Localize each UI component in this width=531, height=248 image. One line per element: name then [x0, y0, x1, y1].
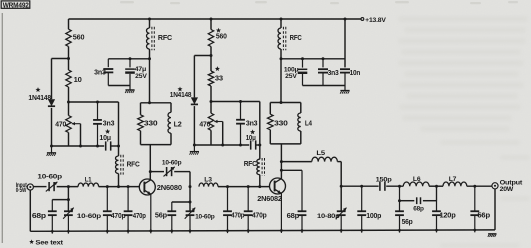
- resistor 33 R5: [208, 71, 213, 86]
- label 10-60p C12: [195, 213, 215, 220]
- svg-text:330: 330: [144, 119, 158, 128]
- wire RFC2 to tank2: [280, 49, 282, 103]
- svg-text:L3: L3: [204, 176, 212, 183]
- node dot RFC4/base: [258, 185, 261, 188]
- label 2N6082: [257, 194, 282, 203]
- core RFC1: [152, 27, 154, 50]
- inductor L7: [443, 182, 467, 186]
- inductor L1: [78, 183, 99, 187]
- node dot rail x=341.2: [340, 229, 343, 232]
- node dot rail/560-2: [210, 18, 213, 21]
- wire RV2 wiper: [222, 122, 224, 146]
- node dot 560-2/diode junction: [210, 54, 213, 57]
- node dot 470p C13 top: [226, 185, 229, 188]
- node dot rail/RFC2: [280, 18, 283, 21]
- label 1N4148 D1: [28, 95, 51, 102]
- wire C16 to RFC4: [255, 144, 259, 146]
- svg-text:150p: 150p: [376, 176, 392, 183]
- wire input to C5: [33, 186, 46, 188]
- node dot rail/10n: [344, 18, 347, 21]
- label 100u C17: [284, 66, 299, 80]
- node dot 68p bridge left: [398, 199, 401, 202]
- svg-text:RFC: RFC: [158, 35, 172, 42]
- resistor 10 R2: [66, 70, 71, 87]
- svg-text:10n: 10n: [350, 70, 361, 77]
- node dot rail x=190: [189, 229, 192, 232]
- capacitor 150p C23 series: [380, 182, 385, 191]
- wire C2 to RFC3: [110, 145, 118, 147]
- node dot rail x=302: [301, 229, 304, 232]
- svg-text:0·5W: 0·5W: [16, 187, 27, 194]
- resistor 330 R3: [138, 115, 144, 131]
- label 470p C14: [252, 213, 267, 220]
- label L6: [413, 176, 421, 183]
- terminal output: [492, 183, 498, 189]
- wire output line A: [341, 185, 378, 187]
- svg-text:330: 330: [274, 119, 288, 128]
- label 100p C22: [366, 213, 381, 220]
- wire RFC1 to tank1: [149, 49, 151, 103]
- ground decoupling2: [340, 86, 350, 94]
- label L1: [85, 177, 92, 184]
- svg-text:+13.8V: +13.8V: [365, 17, 386, 24]
- preset RV2 arrow: [214, 120, 222, 123]
- label +13.8V: [365, 17, 386, 24]
- label 3n3 C1: [103, 118, 115, 127]
- svg-text:RFC: RFC: [244, 161, 257, 168]
- node dot C15 top: [239, 100, 242, 103]
- wire tank2 right top: [300, 103, 302, 114]
- label 10n C19: [350, 70, 361, 77]
- node dot Q1 emitter rail: [149, 230, 152, 233]
- wire interstage column: [189, 187, 191, 212]
- wire decoupling1 bottom: [108, 85, 130, 87]
- node dot 56p C27 top: [473, 185, 476, 188]
- label 470 RV1: [55, 120, 66, 129]
- wire Q2 emitter: [280, 193, 282, 233]
- node dot RFC3/bias-gnd: [117, 145, 120, 148]
- node dot 560/diode junction: [67, 57, 70, 60]
- node dot C15 bottom: [239, 144, 242, 147]
- label L5: [316, 150, 325, 157]
- svg-text:10: 10: [74, 75, 82, 84]
- node dot rail x=399.5: [398, 229, 401, 232]
- wire L7 to output: [467, 185, 492, 187]
- label 10-60p C7: [77, 213, 101, 220]
- label 68p C25: [413, 205, 424, 212]
- svg-text:L5: L5: [316, 150, 325, 157]
- wire D2 cathode: [193, 106, 195, 145]
- svg-text:33: 33: [215, 74, 223, 82]
- node dot 470p C8 top: [106, 185, 109, 188]
- inductor RFC4: [257, 159, 260, 175]
- svg-text:25V: 25V: [135, 73, 147, 80]
- node dot bias1: [67, 101, 70, 104]
- node dot RFC3/base: [117, 185, 120, 188]
- node dot rail x=436.5: [435, 229, 438, 232]
- wire decoupling2 bottom: [303, 85, 346, 87]
- preset resistor 470 RV2: [208, 113, 213, 130]
- wire diode D2 anode: [193, 56, 195, 98]
- svg-text:100p: 100p: [366, 213, 381, 220]
- resistor 560 R1: [66, 29, 71, 46]
- wire tank1 bottom edge: [141, 144, 172, 146]
- wire decoupling1 top: [108, 58, 149, 60]
- capacitor 120p C26: [432, 186, 441, 232]
- diode D1 1N4148: [48, 99, 55, 106]
- svg-text:See text: See text: [35, 240, 64, 247]
- svg-text:470p: 470p: [111, 213, 126, 220]
- node dot C18 top: [322, 57, 325, 60]
- wire stage1 bias gnd: [52, 145, 105, 147]
- star 10u C2: [105, 129, 110, 134]
- wire tank1 right top: [170, 103, 172, 113]
- svg-text:470p: 470p: [231, 213, 244, 220]
- wire RFC1 top: [149, 19, 151, 28]
- label 10u C2: [99, 133, 111, 142]
- wire 68p C6 jog: [52, 200, 68, 212]
- label 470p C9: [133, 213, 146, 220]
- label 3n3 C3: [94, 69, 106, 76]
- label 68p C20: [287, 211, 300, 220]
- label Input: [16, 182, 27, 189]
- wire bias1 down to RFC3: [118, 102, 120, 156]
- label RFC4: [244, 161, 257, 168]
- node dot 56p jog: [189, 201, 192, 204]
- capacitor 470p C8: [103, 187, 112, 234]
- wire tank1 left bottom: [140, 131, 142, 145]
- node dot RV2 wiper/gnd wire: [221, 144, 224, 147]
- transistor Q2 2N6082: [270, 178, 286, 194]
- label 3n3 C15: [246, 118, 258, 127]
- node dot RFC2/decoupling: [280, 57, 283, 60]
- inductor L5: [312, 157, 338, 161]
- label 47u C4: [135, 66, 148, 80]
- label 56p C11: [155, 211, 168, 220]
- inductor RFC2: [278, 28, 281, 49]
- svg-text:2N6080: 2N6080: [157, 183, 182, 192]
- wire L3 to Q2 base: [218, 186, 269, 188]
- wire tank2 right bottom: [300, 131, 302, 144]
- svg-text:1N4148: 1N4148: [170, 92, 192, 99]
- node dot Q2 collector/L5: [280, 160, 283, 163]
- wire output to ground rail: [494, 189, 496, 230]
- node dot D2/gnd wire: [193, 144, 196, 147]
- node dot C4 top: [129, 57, 132, 60]
- label 10-60p C5: [37, 173, 62, 180]
- node dot input shunt node: [67, 185, 70, 188]
- label L4: [305, 119, 312, 128]
- inductor L2: [168, 112, 171, 133]
- label 33 R5: [215, 74, 223, 82]
- wire coupling to column: [174, 171, 190, 173]
- node dot rail x=361.7: [360, 229, 363, 232]
- capacitor 10-60p C7 trimmer: [63, 208, 74, 234]
- capacitor 10-60p C5 trimmer: [46, 182, 58, 192]
- svg-text:3n3: 3n3: [94, 69, 106, 76]
- wire RV2 bottom: [210, 130, 212, 145]
- wire 56p column: [399, 186, 401, 211]
- inductor RFC1: [147, 28, 150, 49]
- label 10-60p C10: [162, 159, 182, 166]
- svg-text:3n3: 3n3: [103, 118, 115, 127]
- wire bias1 node: [69, 101, 119, 103]
- wire stage2 bias gnd: [194, 144, 249, 146]
- node dot rail x=68.4: [67, 230, 70, 233]
- label 470 RV2: [199, 119, 210, 128]
- wire interstage column top: [189, 172, 191, 187]
- capacitor 10u C16 series: [251, 140, 256, 149]
- wire 560-1 to 10: [68, 47, 70, 71]
- capacitor 3n3 C15: [236, 102, 245, 146]
- wire input terminal to rail: [29, 190, 31, 231]
- svg-text:WRM492: WRM492: [3, 1, 29, 10]
- wire 10-80p column: [340, 186, 342, 211]
- wire top +13.8V rail: [69, 18, 361, 20]
- svg-text:560: 560: [73, 33, 85, 42]
- core RFC3: [121, 155, 123, 175]
- wire tank2 to Q2 collector: [280, 144, 282, 179]
- core RFC4: [262, 158, 264, 176]
- node dot L5/10-80p node: [340, 185, 343, 188]
- capacitor 10u C2 series: [106, 141, 111, 150]
- svg-text:470p: 470p: [252, 213, 267, 220]
- preset RV1 arrow: [72, 122, 81, 125]
- capacitor 56p C24: [395, 211, 404, 232]
- faint print bleed-through right side: [120, 1, 518, 4]
- svg-text:L2: L2: [174, 119, 182, 128]
- label 470p C8: [111, 213, 126, 220]
- wire to diode D2: [194, 55, 211, 57]
- node dot RV1 wiper/gnd wire: [79, 145, 82, 148]
- svg-text:2N6082: 2N6082: [257, 194, 282, 203]
- node dot C17 top: [301, 57, 304, 60]
- label 56p C27: [477, 213, 490, 220]
- label Output: [500, 179, 523, 186]
- core RFC2: [283, 27, 285, 50]
- svg-text:10-60p: 10-60p: [162, 159, 182, 166]
- label 330 R3: [144, 119, 158, 128]
- capacitor 47u C4 electrolytic: [125, 59, 135, 86]
- label See text: [35, 240, 64, 247]
- wire coupling from collector: [150, 171, 164, 173]
- label RFC2: [290, 35, 302, 42]
- wire diode D1 anode: [51, 59, 53, 100]
- wire decoupling2 top: [281, 58, 345, 60]
- ground stage1 bias: [47, 146, 57, 156]
- label RFC1: [158, 35, 172, 42]
- svg-text:1N4148: 1N4148: [28, 95, 51, 102]
- wire 56p C11 jog: [172, 202, 190, 211]
- svg-text:20W: 20W: [500, 186, 514, 193]
- capacitor 10-60p C10 trimmer: [164, 167, 175, 177]
- node dot rail x=52.3: [51, 230, 54, 233]
- svg-text:470p: 470p: [133, 213, 146, 220]
- wire RV1 wiper: [80, 124, 82, 146]
- node dot rail x=171.8: [170, 230, 173, 233]
- wire 68p bridge right: [423, 186, 437, 201]
- wire tank2 left bottom: [269, 130, 271, 144]
- wire L1 to Q1 base: [99, 186, 140, 188]
- wire input trimmer column: [67, 187, 69, 200]
- node dot rail x=474.8: [473, 229, 476, 232]
- label 68p C6: [32, 211, 47, 220]
- capacitor 56p C11: [167, 211, 176, 233]
- node dot rail x=128.1: [127, 230, 130, 233]
- capacitor 470p C9: [124, 187, 133, 234]
- node dot rail x=107.3: [106, 230, 109, 233]
- wire tank1 to Q1 collector: [149, 145, 151, 180]
- node dot C1 top: [96, 101, 99, 104]
- svg-text:25V: 25V: [285, 73, 297, 80]
- wire 10 to bias node: [68, 87, 70, 116]
- star footnote: [29, 239, 34, 244]
- star 10u C16: [250, 129, 255, 134]
- wire tank1 top edge: [141, 102, 172, 104]
- capacitor 10-60p C12 trimmer: [185, 208, 196, 234]
- wire RFC3 to base line: [118, 174, 120, 187]
- star R5: [215, 66, 220, 71]
- svg-text:10-60p: 10-60p: [195, 213, 215, 220]
- label 470p C13: [231, 213, 244, 220]
- terminal input: [27, 184, 33, 190]
- svg-text:L4: L4: [305, 119, 312, 128]
- wire L6 to L7: [429, 185, 443, 187]
- node dot Q2 collector/68p: [280, 169, 283, 172]
- wire RV1 bottom: [68, 133, 70, 147]
- svg-text:10μ: 10μ: [99, 133, 111, 142]
- label 10-80p C21: [317, 213, 340, 220]
- capacitor 68p C6: [48, 211, 57, 233]
- inductor L6: [403, 182, 429, 186]
- svg-text:560: 560: [216, 32, 227, 40]
- node dot tank1 top: [148, 101, 151, 104]
- capacitor 3n3 C18: [318, 59, 328, 86]
- label 560 R4: [216, 32, 227, 40]
- inductor L4: [298, 113, 301, 131]
- node dot 470p C14 top: [247, 185, 250, 188]
- node dot Q1 collector/coupling: [149, 170, 152, 173]
- capacitor 470p C14: [244, 187, 253, 233]
- capacitor 100u C17 electrolytic: [298, 59, 308, 86]
- svg-text:RFC: RFC: [290, 35, 302, 42]
- ground stage2 bias: [190, 145, 200, 155]
- label 3n3 C18: [328, 70, 339, 77]
- capacitor 100p C22: [357, 186, 366, 233]
- ground bottom rail: [488, 234, 497, 237]
- capacitor 56p C27: [470, 186, 479, 232]
- node dot tank2 top: [280, 101, 283, 104]
- wire 560-2 to 33: [210, 47, 212, 72]
- label L2: [174, 119, 182, 128]
- label L7: [449, 176, 457, 183]
- node dot rail x=248.2: [247, 229, 250, 232]
- label badge WRM492: [1, 1, 30, 10]
- inductor RFC3: [116, 156, 119, 174]
- wire to diode D1: [52, 58, 69, 60]
- svg-text:68p: 68p: [32, 211, 47, 220]
- svg-text:56p: 56p: [477, 213, 490, 220]
- wire tank2 top edge: [270, 102, 301, 104]
- wire C5 to node: [57, 186, 78, 188]
- capacitor 470p C13: [223, 187, 232, 234]
- svg-text:68p: 68p: [413, 205, 424, 212]
- node dot bias2: [210, 100, 213, 103]
- node dot D1/gnd wire: [50, 145, 53, 148]
- label 120p C26: [440, 213, 456, 220]
- wire tank1 left top: [140, 103, 142, 115]
- node dot 56p C24 node: [398, 185, 401, 188]
- node dot 470p C9 top: [127, 185, 130, 188]
- label 2N6080: [157, 183, 182, 192]
- svg-text:10-60p: 10-60p: [77, 213, 101, 220]
- svg-text:3n3: 3n3: [246, 118, 258, 127]
- wire RFC2 top: [280, 19, 282, 28]
- node dot rail x=227.5: [226, 229, 229, 232]
- label 0.5W: [16, 187, 27, 194]
- capacitor 68p C20: [298, 211, 307, 233]
- wire bottom ground rail: [30, 230, 495, 231]
- label 1N4148 D2: [170, 92, 192, 99]
- wire 10n rail drop: [344, 19, 346, 67]
- node dot rail/RFC1: [148, 18, 151, 21]
- label 20W: [500, 186, 514, 193]
- wire RFC4 to base line: [259, 175, 261, 187]
- wire L5 to output node: [337, 162, 341, 187]
- wire 560-2 top: [210, 19, 212, 30]
- diode D2 1N4148: [191, 97, 198, 104]
- svg-text:470: 470: [55, 120, 66, 129]
- wire 150p to L6: [386, 185, 403, 187]
- label 10u C16: [246, 133, 256, 142]
- capacitor 10-80p C21 trimmer: [336, 208, 347, 233]
- wire 68p C20 branch: [281, 170, 302, 211]
- capacitor 68p C25 series: [417, 197, 421, 204]
- transistor Q1 2N6080: [139, 179, 155, 195]
- svg-text:3n3: 3n3: [328, 70, 339, 77]
- svg-text:56p: 56p: [155, 211, 168, 220]
- wire D1 cathode: [51, 108, 53, 146]
- star D2: [177, 87, 182, 92]
- svg-text:RFC: RFC: [127, 162, 140, 169]
- node dot Q2 emitter rail: [280, 229, 283, 232]
- wire bias2 node: [211, 101, 260, 103]
- node dot 100p top: [360, 185, 363, 188]
- wire trimmer C7 column: [67, 200, 69, 212]
- wire tank2 bottom edge: [270, 143, 301, 145]
- svg-text:10-60p: 10-60p: [37, 173, 62, 180]
- resistor 560 R4: [208, 30, 213, 47]
- ground decoupling1: [125, 86, 135, 94]
- wire bias2 down to RFC4: [259, 102, 261, 160]
- label 150p C23: [376, 176, 392, 183]
- wire 560-1 top: [68, 19, 70, 29]
- capacitor 3n3 C1: [93, 102, 102, 146]
- resistor 330 R6: [268, 114, 274, 130]
- svg-text:470: 470: [199, 119, 210, 128]
- svg-text:56p: 56p: [402, 219, 413, 226]
- wire tank1 right bottom: [170, 133, 172, 144]
- wire 68p bridge left: [400, 200, 415, 202]
- svg-text:120p: 120p: [440, 213, 456, 220]
- label 560 R1: [73, 33, 85, 42]
- label 330 R6: [274, 119, 288, 128]
- node dot interstage node: [189, 185, 192, 188]
- wire Q1 emitter: [150, 194, 152, 233]
- capacitor 3n3 C3: [103, 59, 113, 86]
- label L3: [204, 176, 212, 183]
- label 56p C24: [402, 219, 413, 226]
